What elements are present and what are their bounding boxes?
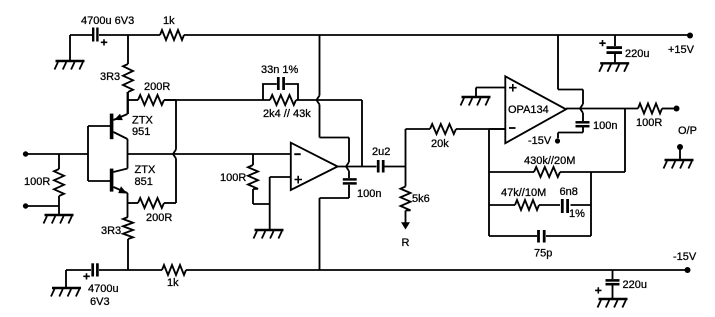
wire feedback down to output node	[361, 100, 363, 167]
svg-text:+15V: +15V	[668, 44, 695, 56]
ground U2 plus input	[461, 97, 491, 106]
svg-text:3R3: 3R3	[100, 71, 120, 83]
svg-text:6V3: 6V3	[90, 296, 110, 308]
svg-text:220u: 220u	[625, 48, 649, 60]
svg-text:4700u 6V3: 4700u 6V3	[81, 15, 134, 27]
svg-text:5k6: 5k6	[412, 193, 430, 205]
svg-text:OPA134: OPA134	[508, 104, 549, 116]
wire R6 to bottom rail	[127, 239, 129, 270]
resistor R14 47k//10M	[489, 200, 560, 210]
wire U2 supply column with hop	[558, 35, 583, 138]
wire feedback tap from output	[624, 109, 626, 173]
wire U2 output	[566, 108, 638, 110]
op-amp U1	[291, 143, 338, 190]
svg-text:ZTX: ZTX	[132, 115, 153, 127]
wire U2 minus input	[489, 128, 505, 130]
wire U1 plus input to ground	[253, 177, 291, 229]
transistor Q2 ZTX851	[110, 154, 128, 217]
wire U2 plus input	[476, 88, 505, 97]
wire gnd to C2	[66, 269, 91, 271]
svg-text:100R: 100R	[636, 117, 662, 129]
wire C5 to junction	[385, 166, 406, 168]
terminal dot -15V (U2)	[555, 138, 560, 143]
svg-text:75p: 75p	[534, 248, 552, 260]
ground C10	[598, 299, 628, 308]
svg-text:430k//20M: 430k//20M	[524, 155, 575, 167]
wire junction down to R2	[127, 35, 129, 64]
terminal arrow R	[401, 211, 410, 230]
svg-text:200R: 200R	[146, 212, 172, 224]
svg-text:1k: 1k	[163, 15, 175, 27]
svg-text:6n8: 6n8	[560, 186, 578, 198]
capacitor C5 2u2	[378, 160, 383, 173]
capacitor C9 220u (top)	[599, 35, 622, 62]
capacitor C2 4700u 6V3 (bottom)	[83, 263, 97, 279]
capacitor C7 6n8 1%	[562, 199, 591, 213]
transistor Q1 ZTX951	[110, 92, 128, 154]
svg-text:100n: 100n	[593, 120, 617, 132]
svg-text:100R: 100R	[24, 176, 50, 188]
svg-text:20k: 20k	[431, 138, 449, 150]
ground C9	[599, 63, 629, 72]
resistor R11 5k6	[401, 187, 411, 211]
wire C1 to R1	[99, 34, 160, 36]
resistor R8 2k4 // 43k	[270, 95, 296, 105]
svg-text:33n 1%: 33n 1%	[261, 64, 299, 76]
resistor R7 1k (bottom)	[162, 265, 186, 275]
ground input	[44, 206, 74, 224]
resistor R12 100R (output)	[638, 104, 674, 114]
svg-text:3R3: 3R3	[101, 225, 121, 237]
svg-text:4700u: 4700u	[88, 283, 119, 295]
svg-text:-15V: -15V	[673, 251, 697, 263]
resistor R13 430k//20M	[489, 167, 625, 177]
op-amp U2 OPA134	[505, 76, 566, 143]
svg-text:-15V: -15V	[528, 135, 552, 147]
wire feedback node column	[488, 129, 490, 236]
capacitor C8 75p	[489, 230, 591, 243]
svg-text:100n: 100n	[357, 188, 381, 200]
terminal dot -15V (rail)	[685, 267, 691, 273]
wire top +15V rail	[184, 34, 690, 36]
svg-text:2u2: 2u2	[372, 146, 390, 158]
input terminal dot 1	[23, 151, 28, 156]
wire base column	[88, 126, 110, 181]
svg-text:851: 851	[135, 176, 153, 188]
svg-text:100R: 100R	[220, 172, 246, 184]
wire junction column 20k/5k6	[405, 129, 407, 187]
resistor R1 1k (top)	[160, 30, 184, 40]
ground output	[664, 150, 694, 169]
capacitor C3 33n 1% bypass loop	[263, 77, 298, 100]
capacitor C6 100n (U2 supply)	[576, 122, 590, 126]
resistor R5 100R (input)	[54, 154, 64, 206]
resistor R2 3R3 (top)	[123, 64, 133, 92]
svg-text:220u: 220u	[623, 279, 647, 291]
terminal dot output ground	[677, 144, 683, 150]
ground bottom-left	[51, 270, 81, 297]
capacitor C10 220u (bottom)	[595, 270, 619, 298]
resistor R3 200R (top)	[128, 95, 176, 105]
terminal dot O/P	[674, 106, 680, 112]
wire feedback right column	[590, 172, 592, 236]
wire middle node to op-amp U1 minus input	[128, 153, 291, 155]
wire C2 to R7	[99, 269, 162, 271]
wire 200R to feedback network	[164, 99, 270, 101]
ground top-left	[55, 35, 85, 70]
svg-text:200R: 200R	[144, 81, 170, 93]
wire vertical link 200R-200R with hop	[173, 100, 176, 203]
svg-text:1k: 1k	[167, 277, 179, 289]
wire U1 output	[338, 166, 377, 168]
wire input 2	[26, 205, 59, 207]
svg-text:R: R	[402, 237, 410, 249]
terminal dot +15V	[687, 33, 693, 39]
supply branch jog around U1 with hop and 100n	[320, 138, 350, 271]
capacitor C4 100n (U1 supply)	[343, 179, 357, 183]
capacitor C1 4700u 6V3 (top)	[93, 28, 107, 46]
svg-text:47k//10M: 47k//10M	[501, 187, 546, 199]
svg-text:951: 951	[132, 126, 150, 138]
wire gnd to C1	[70, 34, 92, 36]
svg-text:2k4 // 43k: 2k4 // 43k	[263, 108, 311, 120]
resistor R6 3R3 (bottom)	[123, 217, 133, 239]
input terminal dot 2	[23, 203, 28, 208]
svg-text:O/P: O/P	[678, 125, 697, 137]
svg-text:1%: 1%	[569, 208, 585, 220]
wire input 1	[26, 153, 88, 155]
svg-text:ZTX: ZTX	[135, 164, 156, 176]
wire feedback to output column with hop	[296, 35, 362, 138]
resistor R10 20k	[406, 124, 506, 134]
resistor R9 100R (U1)	[248, 154, 258, 204]
resistor R4 200R (bottom)	[128, 198, 176, 208]
ground U1 plus input	[254, 230, 284, 239]
wire R2 to Q1 emitter	[127, 92, 129, 114]
wire bottom -15V rail	[186, 269, 688, 271]
